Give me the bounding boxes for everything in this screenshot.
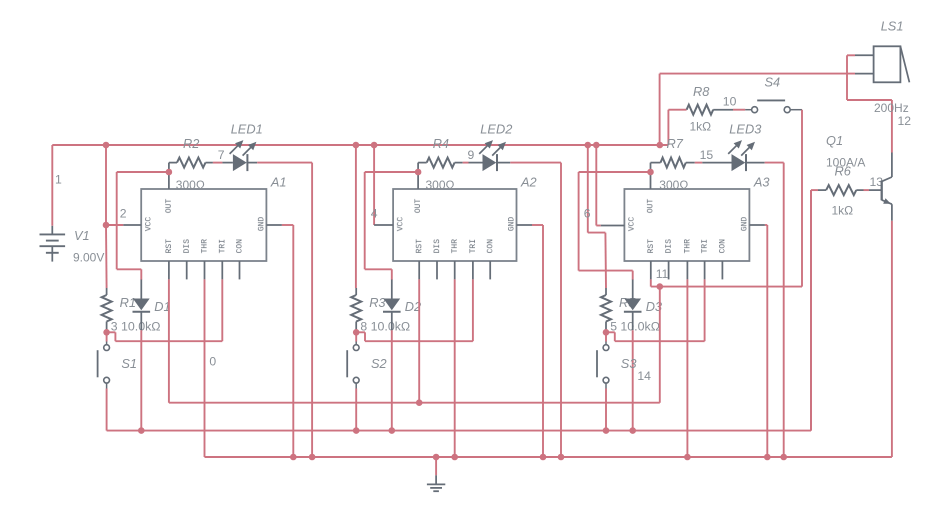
- svg-text:GND: GND: [257, 217, 266, 232]
- svg-text:TRI: TRI: [469, 239, 478, 253]
- battery V1 lead wire: [51, 145, 53, 226]
- svg-text:100A/A: 100A/A: [826, 156, 865, 170]
- label S3: [621, 356, 637, 371]
- label A3: [753, 174, 770, 189]
- svg-text:CON: CON: [719, 239, 728, 254]
- net num out 2: [468, 148, 475, 162]
- svg-text:S3: S3: [621, 356, 637, 371]
- wire Q1 base stub: [869, 189, 882, 191]
- wire net 13: [864, 189, 870, 191]
- wire VCC3 pin stub: [601, 225, 625, 227]
- wire ground stub: [435, 457, 437, 475]
- net 11: [656, 267, 669, 281]
- svg-text:R4: R4: [433, 136, 449, 151]
- label S4: [765, 75, 781, 90]
- wire R6 left: [811, 190, 818, 431]
- svg-text:1kΩ: 1kΩ: [832, 204, 854, 218]
- wire TRI3 jog: [606, 279, 705, 341]
- resistor R1: [102, 288, 112, 332]
- label D2: [405, 299, 421, 314]
- svg-text:TRI: TRI: [218, 239, 227, 253]
- wire GND1 to rail: [282, 225, 293, 457]
- net num vcc 3: [584, 206, 591, 220]
- svg-text:THR: THR: [201, 239, 210, 254]
- junction R3 bottom: [603, 329, 610, 336]
- junction RST3: [657, 283, 664, 290]
- A1 pin labels: [145, 199, 267, 254]
- svg-text:GND: GND: [740, 217, 749, 232]
- label R5: [619, 295, 636, 310]
- svg-text:A1: A1: [270, 174, 287, 189]
- svg-text:THR: THR: [684, 239, 693, 254]
- wire LED2 cathode to gnd rail: [510, 163, 561, 457]
- svg-text:THR: THR: [451, 239, 460, 254]
- svg-text:R2: R2: [183, 136, 199, 151]
- wire RST2 down: [418, 279, 420, 402]
- svg-text:RST: RST: [165, 239, 174, 254]
- svg-text:DIS: DIS: [665, 239, 674, 254]
- svg-text:LS1: LS1: [881, 19, 904, 34]
- wire RST1 down: [168, 279, 170, 402]
- wire net seg 3: [695, 162, 703, 164]
- label 300ohm 2: [426, 178, 455, 192]
- resistor R7: [651, 158, 695, 168]
- net 13: [870, 175, 884, 189]
- svg-text:GND: GND: [508, 217, 517, 232]
- timer IC A3 box: [624, 189, 749, 261]
- wire D2 to rail: [391, 330, 393, 430]
- wire RST rail: [169, 287, 660, 403]
- svg-text:OUT: OUT: [414, 199, 423, 214]
- label 1kohm R6: [832, 204, 854, 218]
- svg-text:LED1: LED1: [231, 122, 263, 137]
- switch S3: [597, 332, 609, 388]
- junction R3 rail: [353, 142, 360, 149]
- label 9.00V: [73, 251, 104, 265]
- resistor R2: [169, 158, 213, 168]
- svg-text:S4: S4: [765, 75, 781, 90]
- svg-text:R7: R7: [667, 136, 684, 151]
- wire rail to R8: [668, 110, 677, 145]
- wire RST3 jog: [651, 279, 802, 286]
- wire TRI2 jog: [356, 279, 473, 341]
- svg-text:10.0kΩ: 10.0kΩ: [620, 319, 660, 333]
- junction rail/LS1: [657, 142, 664, 149]
- svg-text:A2: A2: [520, 174, 537, 189]
- svg-text:S1: S1: [121, 356, 137, 371]
- wire LED1 cathode stub: [247, 162, 257, 164]
- svg-text:15: 15: [700, 148, 714, 162]
- speaker LS1: [855, 46, 909, 82]
- A1 bottom pin stubs: [169, 261, 240, 279]
- label A1: [270, 174, 287, 189]
- junction R1 bottom: [103, 329, 110, 336]
- wire LED2 cathode stub: [497, 162, 510, 164]
- net num rbot 2: [360, 319, 367, 333]
- wire S4 to RST3: [801, 110, 803, 287]
- svg-text:4: 4: [371, 206, 378, 220]
- wire GND3 to rail: [765, 225, 767, 457]
- label R1: [120, 295, 136, 310]
- transistor Q1: [882, 153, 892, 221]
- label LED3: [729, 122, 761, 137]
- svg-text:TRI: TRI: [701, 239, 710, 253]
- svg-text:CON: CON: [486, 239, 495, 254]
- svg-text:200Hz: 200Hz: [874, 101, 909, 115]
- wire VCC1 feed: [106, 145, 123, 225]
- switch S4: [745, 100, 802, 112]
- label V1: [74, 228, 90, 243]
- net 12: [898, 114, 912, 128]
- svg-text:2: 2: [120, 206, 127, 220]
- junction VCC2 rail: [371, 142, 378, 149]
- wire GND2 pin stub: [517, 224, 533, 226]
- svg-text:R1: R1: [120, 295, 136, 310]
- A1 OUT pin: [168, 163, 170, 189]
- svg-text:14: 14: [637, 369, 651, 383]
- label S2: [371, 356, 387, 371]
- wire switch rail: [107, 190, 811, 431]
- svg-text:OUT: OUT: [165, 199, 174, 214]
- junction OUT3: [647, 169, 654, 176]
- label 1kohm R8: [690, 119, 712, 133]
- label LED1: [231, 122, 263, 137]
- label R4: [433, 136, 449, 151]
- junction VCC1: [103, 222, 110, 229]
- wire LED3 cathode to gnd rail: [765, 163, 784, 457]
- LED LED2: [479, 140, 506, 171]
- battery V1: [40, 226, 66, 262]
- label R3: [369, 295, 385, 310]
- wire OUT1 to D1: [117, 172, 169, 280]
- label A2: [520, 174, 537, 189]
- svg-text:Q1: Q1: [826, 133, 843, 148]
- svg-text:LED2: LED2: [480, 122, 512, 137]
- svg-text:S2: S2: [371, 356, 387, 371]
- svg-text:1kΩ: 1kΩ: [690, 119, 712, 133]
- svg-text:10.0kΩ: 10.0kΩ: [371, 319, 411, 333]
- label R7: [667, 136, 684, 151]
- svg-text:1: 1: [55, 172, 62, 186]
- resistor R5: [601, 288, 611, 332]
- resistor R8: [678, 105, 734, 115]
- svg-text:VCC: VCC: [145, 217, 154, 232]
- svg-text:7: 7: [218, 148, 225, 162]
- svg-text:3: 3: [111, 319, 118, 333]
- label D1: [154, 299, 170, 314]
- svg-text:0: 0: [209, 354, 216, 368]
- svg-text:9: 9: [468, 148, 475, 162]
- label S1: [121, 356, 137, 371]
- wire LED3 cathode stub: [746, 162, 765, 164]
- diode D3: [624, 280, 642, 331]
- svg-text:A3: A3: [753, 174, 770, 189]
- net num out 3: [700, 148, 714, 162]
- diode D2: [383, 280, 401, 331]
- svg-text:DIS: DIS: [183, 239, 192, 254]
- svg-text:RST: RST: [647, 239, 656, 254]
- label 10.0kohm 2: [371, 319, 411, 333]
- label LED2: [480, 122, 512, 137]
- wire LS1 top to Q1 collector: [847, 55, 892, 152]
- svg-text:CON: CON: [236, 239, 245, 254]
- wire GND3 pin stub: [749, 224, 765, 226]
- net 14: [637, 369, 651, 383]
- wire OUT2 to D2: [365, 172, 418, 280]
- wire TRI1 jog: [107, 279, 223, 341]
- wire R3 top: [355, 145, 357, 288]
- label 300ohm 3: [659, 178, 688, 192]
- svg-text:5: 5: [610, 319, 617, 333]
- wire THR3 down: [686, 279, 688, 457]
- resistor R4: [418, 158, 463, 168]
- net 0: [209, 354, 216, 368]
- svg-text:8: 8: [360, 319, 367, 333]
- junction OUT1: [166, 169, 173, 176]
- junction R2 bottom: [353, 329, 360, 336]
- diode D1: [133, 280, 151, 331]
- net num rbot 3: [610, 319, 617, 333]
- A2 bottom pin stubs: [419, 261, 490, 279]
- A2 OUT pin: [417, 163, 419, 189]
- A3 pin labels: [628, 199, 750, 254]
- wire VCC1 pin stub: [123, 224, 141, 226]
- wire LED1 anode stub: [222, 162, 233, 164]
- label 10.0kohm 1: [121, 319, 161, 333]
- LED LED1: [230, 140, 257, 171]
- wire net 10: [733, 109, 745, 111]
- svg-text:300Ω: 300Ω: [659, 178, 688, 192]
- net num vcc 2: [371, 206, 378, 220]
- net num vcc 1: [120, 206, 127, 220]
- wire VCC2 pin stub: [374, 224, 393, 226]
- wire GND1 pin stub: [266, 224, 282, 226]
- svg-text:RST: RST: [415, 239, 424, 254]
- svg-text:300Ω: 300Ω: [426, 178, 455, 192]
- label Q1: [826, 133, 843, 148]
- wire D3 to rail: [632, 330, 634, 430]
- resistor R6: [818, 185, 864, 195]
- LED LED3: [728, 140, 755, 171]
- wire top VCC rail: [52, 144, 668, 146]
- label D3: [646, 299, 662, 314]
- svg-text:11: 11: [656, 267, 669, 281]
- svg-text:DIS: DIS: [433, 239, 442, 254]
- svg-text:R8: R8: [693, 84, 710, 99]
- net num out 1: [218, 148, 225, 162]
- wire net seg 2: [463, 162, 469, 164]
- ground symbol: [427, 475, 445, 491]
- junction VCC1 rail: [103, 142, 110, 149]
- label R2: [183, 136, 199, 151]
- wire R1 top: [105, 225, 108, 288]
- wire S1 to rail: [106, 389, 108, 431]
- A3 bottom pin stubs: [651, 261, 723, 279]
- wire S3 to rail: [605, 389, 607, 431]
- wire THR1 down: [204, 279, 206, 457]
- label R8: [693, 84, 710, 99]
- A2 pin labels: [396, 199, 516, 254]
- svg-text:10: 10: [723, 94, 737, 108]
- wire THR2 down: [454, 279, 456, 457]
- net 10: [723, 94, 737, 108]
- resistor R3: [351, 288, 361, 332]
- switch S1: [98, 332, 110, 388]
- wire D1 to rail: [140, 330, 142, 430]
- svg-text:LED3: LED3: [729, 122, 761, 137]
- wire OUT3 to D3: [579, 172, 651, 280]
- wire LED2 anode stub: [469, 162, 483, 164]
- wire VCC3 feed: [596, 145, 601, 226]
- junction R5 rail: [585, 142, 592, 149]
- wire R5 top: [588, 145, 606, 288]
- wire S2 to rail: [355, 389, 357, 431]
- svg-text:12: 12: [898, 114, 912, 128]
- net 1: [55, 172, 62, 186]
- label 100A/A: [826, 156, 865, 170]
- wire GND2 to rail: [532, 225, 543, 457]
- wire LED3 anode stub: [702, 162, 731, 164]
- label 10.0kohm 3: [620, 319, 660, 333]
- wire LS1 bottom feed: [660, 74, 855, 145]
- junction dots: [138, 399, 787, 460]
- junction ground: [433, 454, 440, 461]
- label 200Hz: [874, 101, 909, 115]
- junction VCC3 rail: [593, 142, 600, 149]
- svg-text:R3: R3: [369, 295, 385, 310]
- svg-text:VCC: VCC: [628, 217, 637, 232]
- label 300ohm 1: [176, 178, 205, 192]
- net num rbot 1: [111, 319, 118, 333]
- wire ground rail: [205, 221, 892, 457]
- svg-text:V1: V1: [74, 228, 90, 243]
- switch S2: [347, 332, 359, 388]
- svg-text:300Ω: 300Ω: [176, 178, 205, 192]
- junction OUT2: [415, 169, 422, 176]
- A3 OUT pin: [650, 163, 652, 189]
- svg-text:6: 6: [584, 206, 591, 220]
- wire net seg 1: [213, 162, 223, 164]
- label R6: [835, 163, 852, 178]
- svg-text:9.00V: 9.00V: [73, 251, 104, 265]
- timer IC A1 box: [141, 189, 266, 261]
- wire VCC2 feed: [373, 145, 375, 225]
- timer IC A2 box: [393, 189, 516, 261]
- label LS1: [881, 19, 904, 34]
- svg-text:VCC: VCC: [396, 217, 405, 232]
- wire LED1 cathode to gnd rail: [257, 163, 312, 457]
- svg-text:OUT: OUT: [646, 199, 655, 214]
